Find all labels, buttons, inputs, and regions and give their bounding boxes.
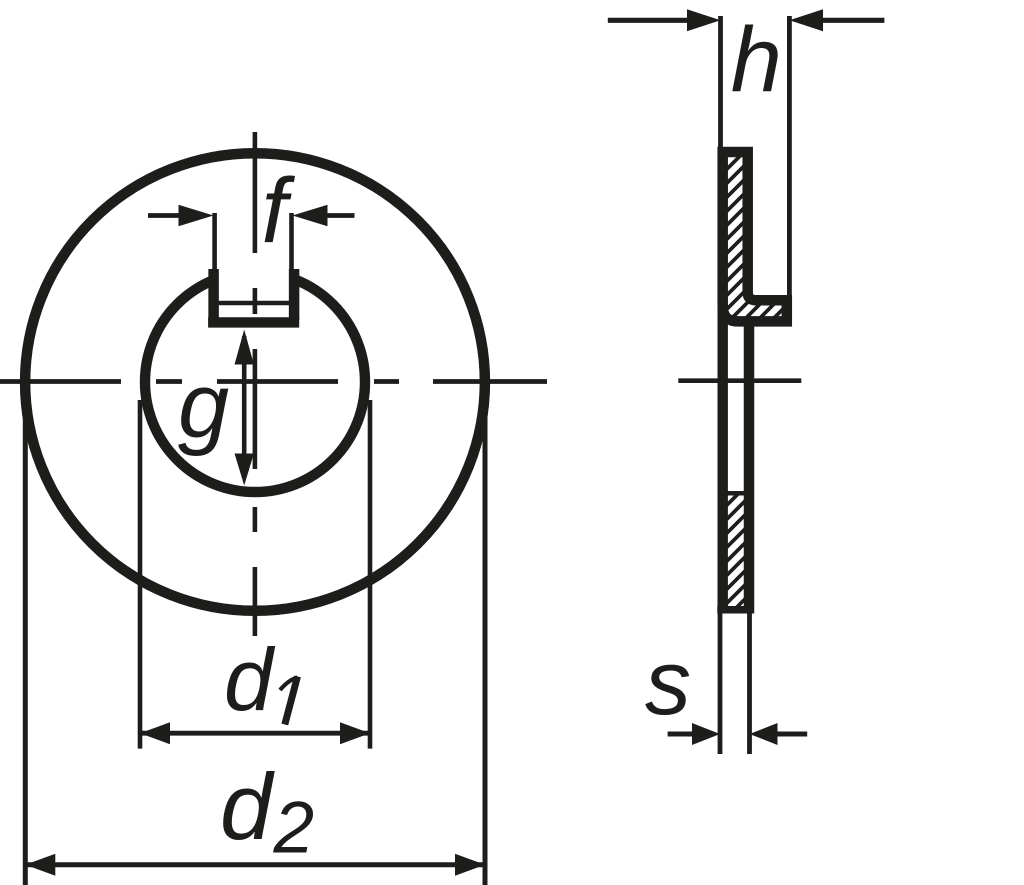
svg-text:h: h: [731, 9, 782, 111]
svg-text:g: g: [178, 355, 229, 457]
svg-text:d: d: [224, 630, 276, 729]
svg-text:2: 2: [273, 788, 315, 869]
svg-text:d: d: [220, 754, 275, 859]
svg-text:s: s: [645, 632, 691, 734]
